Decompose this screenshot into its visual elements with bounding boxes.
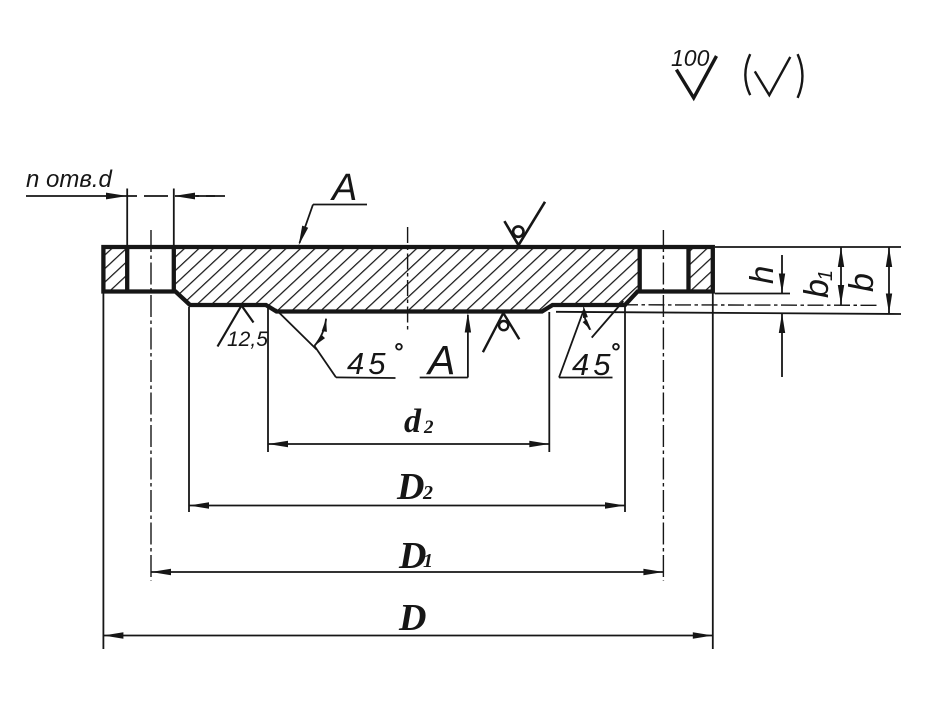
right side: D2-face dashdot level line (622, 304, 877, 307)
D2 arrow left (189, 502, 209, 508)
d2 arrow right (529, 441, 549, 447)
b arrow up (886, 247, 892, 267)
main vertical centerline (407, 227, 409, 332)
h dimension line (781, 255, 783, 294)
D2 arrow right (605, 502, 625, 508)
svg-text:D: D (396, 466, 424, 508)
svg-text:45: 45 (572, 347, 614, 382)
A top leader arrowhead (299, 226, 309, 246)
D2 dimension line (189, 505, 625, 507)
12,5 roughness check mark (218, 306, 254, 347)
hole dim arrow left (points right at x=127.2) (106, 193, 127, 200)
D arrow left (103, 632, 123, 638)
svg-text:D: D (398, 597, 426, 639)
extension: d2 left (267, 307, 269, 453)
svg-text:100: 100 (671, 45, 710, 71)
b1 dimension line (840, 247, 842, 305)
hole dim arrow right (points left at x=173.8) (174, 193, 195, 200)
left 45 leader (314, 346, 336, 378)
right 45 arc arrow down (583, 319, 592, 330)
svg-text:d: d (404, 403, 422, 440)
svg-text:12,5: 12,5 (227, 328, 268, 351)
svg-text:1: 1 (423, 550, 433, 572)
left bolt hole right edge (172, 247, 176, 292)
left 45 arc arrow down (314, 335, 325, 346)
D dimension line (103, 635, 712, 637)
b1 arrow up (838, 247, 844, 267)
A top leader (300, 205, 314, 244)
svg-text:b: b (843, 273, 881, 292)
left 45 deg arc (314, 319, 326, 346)
left bolt hole centerline (150, 230, 152, 581)
svg-text:°: ° (610, 339, 620, 366)
right 45 leader (559, 310, 584, 377)
d2 arrow left (268, 441, 288, 447)
left 45 deg chamfer extension line (275, 309, 316, 350)
extension: D2 right (624, 306, 626, 512)
svg-text:A: A (425, 337, 455, 383)
label b1 (798, 270, 837, 298)
D1 dimension line (151, 571, 663, 573)
A top shelf (313, 204, 367, 206)
right 45 shelf (559, 377, 613, 379)
left 45 arc arrow up (322, 319, 327, 332)
extension: flange right edge down (712, 294, 714, 650)
right side: rim bottom extension (715, 293, 790, 295)
h arrow down (779, 274, 785, 294)
b dimension line (888, 247, 890, 314)
right 45 deg chamfer extension line (592, 301, 624, 338)
extension line above left hole right edge (173, 189, 175, 248)
flange hatched section: main body (174, 247, 640, 312)
D1 arrow right (643, 569, 663, 575)
extension: d2 right (548, 312, 550, 452)
extension line above left hole left edge (126, 189, 128, 248)
svg-text:n отв.d: n отв.d (26, 166, 113, 193)
A bottom arrowhead (465, 313, 471, 333)
right bolt hole right edge (686, 247, 690, 292)
A bottom leader vertical (467, 315, 469, 378)
b1 arrow down (838, 285, 844, 305)
right 45 deg arc (584, 310, 590, 329)
right side: bottom face extension (556, 312, 901, 314)
roughness V-circle on bottom face (inverted) (483, 313, 519, 352)
d2 dimension line (268, 443, 549, 445)
flange outline (103, 247, 712, 312)
right side: top face extension (715, 246, 901, 248)
extension: flange left edge down (102, 294, 104, 650)
right bolt hole centerline (662, 230, 664, 581)
svg-text:h: h (743, 266, 780, 284)
b arrow down (886, 294, 892, 314)
D arrow right (693, 632, 713, 638)
right 45 arc arrow up (583, 305, 588, 318)
svg-text:2: 2 (422, 482, 433, 504)
svg-text:°: ° (393, 339, 403, 366)
A bottom shelf (420, 377, 468, 379)
left bolt hole left edge (125, 247, 129, 292)
svg-text:A: A (330, 167, 357, 209)
flange hatched section: right rim (689, 247, 713, 292)
D1 arrow left (151, 569, 171, 575)
flange hatched section: left rim (103, 247, 127, 292)
svg-text:2: 2 (423, 417, 434, 438)
parenthesized check (745, 54, 750, 95)
left 45 shelf (336, 376, 396, 379)
extension: D2 left (188, 307, 190, 512)
svg-text:1: 1 (815, 270, 837, 281)
right bolt hole left edge (638, 247, 642, 292)
roughness V-circle on top face (504, 202, 545, 245)
svg-text:45: 45 (347, 346, 389, 381)
h arrow up (779, 313, 785, 333)
hole diameter dimension line (26, 195, 113, 197)
